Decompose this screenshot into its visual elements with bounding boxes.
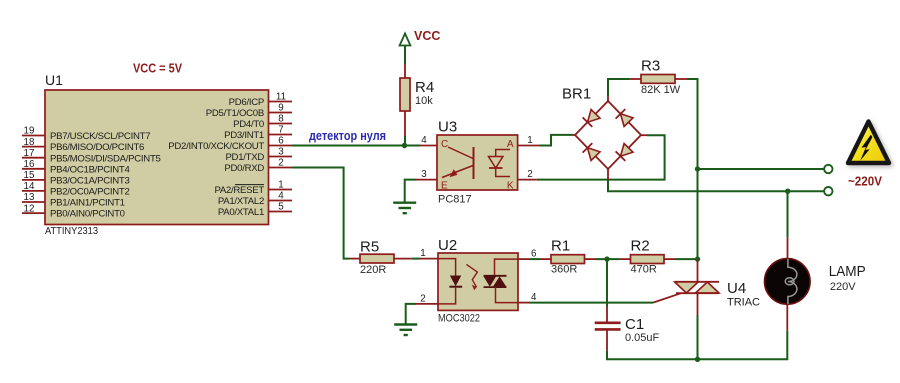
U3 internal photodiode [489,150,511,177]
U1 pin 17 PB5/MOSI/DI/SDA/PCINT5 [22,148,161,164]
svg-text:4: 4 [278,191,284,202]
svg-text:6: 6 [531,249,537,260]
svg-text:~220V: ~220V [848,174,882,189]
svg-text:PD2/INT0/XCK/CKOUT: PD2/INT0/XCK/CKOUT [168,141,264,152]
svg-text:220R: 220R [360,264,386,276]
U2 internal light arrow [466,264,477,290]
svg-text:4: 4 [531,292,537,303]
terminal 2 (~220V neutral) [824,187,832,195]
svg-text:K: K [507,181,514,192]
resistor R1 360R [540,238,596,276]
U2 pin 4 [518,292,537,303]
svg-text:360R: 360R [551,264,577,276]
U1 pin 2 PD0/RXD [224,158,292,174]
U1 pin 5 PA0/XTAL1 [218,202,292,218]
resistor R3 82K 1W [629,58,687,97]
svg-text:PA1/XTAL2: PA1/XTAL2 [218,196,264,207]
U1 pin 7 PD3/INT1 [224,125,292,141]
wire U2 pin6 to R1 [530,258,541,260]
svg-text:9: 9 [278,103,283,114]
U1 pin 13 PB1/AIN1/PCINT1 [22,192,125,208]
bridge diode D-bottom-left [588,148,601,161]
svg-text:17: 17 [24,148,35,159]
U1 pin 16 PB4/OC1B/PCINT4 [22,159,130,175]
wire U3 pin1 to BR1 left [540,135,573,146]
wire C1 to bottom rail [607,351,698,359]
resistor R4 10k [400,64,434,146]
svg-text:R5: R5 [360,239,379,256]
svg-text:5: 5 [278,202,284,213]
svg-text:19: 19 [24,126,35,137]
svg-text:13: 13 [24,192,35,203]
svg-text:R4: R4 [415,79,434,96]
svg-text:PD0/RXD: PD0/RXD [224,163,264,174]
junction node bottom rail [695,357,700,362]
hazard symbol (high voltage triangle) [848,122,889,164]
U2 pin 6 [518,249,537,260]
optocoupler U2 MOC3022 body [438,253,518,310]
U1 pin 9 PD5/T1/OC0B [206,103,292,119]
U1 pin 3 PD1/TXD [225,147,292,163]
IC U1 ATTINY2313 body [45,90,269,225]
ground symbol (U3 pin3) [393,203,416,214]
svg-text:PD1/TXD: PD1/TXD [225,152,264,163]
capacitor C1 0.05uF [595,307,660,351]
U2 internal LED [438,259,462,304]
wire U1 pin2 to R5 [292,168,349,259]
U1 pin 15 PB3/OC1A/PCINT3 [22,170,130,186]
svg-text:15: 15 [24,170,35,181]
wire BR1 bottom to terminal 2 [607,169,609,180]
svg-text:12: 12 [24,203,35,214]
svg-text:A: A [507,139,514,150]
svg-text:3: 3 [421,169,427,180]
svg-text:LAMP: LAMP [829,263,866,280]
U2 internal triac [484,259,519,303]
bridge diode D-top-left [588,110,601,123]
svg-text:U4: U4 [727,280,746,297]
svg-text:U2: U2 [438,237,457,254]
U1 pin 19 PB7/USCK/SCL/PCINT7 [22,126,150,142]
svg-text:PB7/USCK/SCL/PCINT7: PB7/USCK/SCL/PCINT7 [50,131,150,142]
svg-text:R2: R2 [631,238,650,255]
U1 pin 12 PB0/AIN0/PCINT0 [22,203,125,219]
U1 pin 6 PD2/INT0/XCK/CKOUT [168,136,292,152]
U3 pin 1 A [507,135,540,150]
svg-text:6: 6 [278,136,284,147]
svg-text:MOC3022: MOC3022 [438,313,480,325]
wire R1 to R2 [596,258,620,260]
svg-text:PB0/AIN0/PCINT0: PB0/AIN0/PCINT0 [50,209,125,220]
wire R3 to right rail [687,79,698,169]
svg-text:14: 14 [24,181,35,192]
svg-text:0.05uF: 0.05uF [625,332,660,344]
svg-text:2: 2 [420,293,425,304]
svg-text:BR1: BR1 [562,86,591,103]
svg-text:11: 11 [276,92,286,103]
svg-text:PD6/ICP: PD6/ICP [229,97,264,108]
svg-text:PA2/RESET: PA2/RESET [214,185,264,196]
U2 pin 1 [420,248,438,259]
svg-text:PC817: PC817 [438,194,472,206]
U2 pin 2 [416,293,438,304]
wire U3 pin2 to BR1 right [537,135,665,179]
svg-text:470R: 470R [631,264,657,276]
svg-text:PD5/T1/OC0B: PD5/T1/OC0B [206,108,264,119]
optocoupler U3 PC817 body [437,135,518,190]
wire U2 pin2 to ground [406,304,416,325]
svg-text:C1: C1 [625,316,644,333]
svg-text:PB3/OC1A/PCINT3: PB3/OC1A/PCINT3 [50,176,130,187]
bridge rectifier BR1 [575,101,641,169]
svg-text:U1: U1 [45,72,63,88]
svg-text:ATTINY2313: ATTINY2313 [45,225,98,237]
svg-text:82K 1W: 82K 1W [641,84,681,96]
svg-text:PB2/OC0A/PCINT2: PB2/OC0A/PCINT2 [50,187,130,198]
svg-text:16: 16 [24,159,35,170]
U1 pin 4 PA1/XTAL2 [218,191,292,207]
triac U4 [653,259,760,315]
wire U4 to bottom rail [697,315,699,359]
svg-text:R3: R3 [641,58,660,75]
svg-text:R1: R1 [551,238,570,255]
svg-text:10k: 10k [415,95,433,107]
svg-text:1: 1 [420,248,425,259]
svg-text:1: 1 [278,180,283,191]
svg-text:TRIAC: TRIAC [727,297,760,309]
wire R2 to rail [675,258,698,260]
U1 pin 14 PB2/OC0A/PCINT2 [22,181,130,197]
junction node R4/U3 [402,143,407,148]
svg-text:4: 4 [421,135,427,146]
svg-text:VCC = 5V: VCC = 5V [133,61,182,76]
U1 pin 11 PD6/ICP [229,92,292,108]
U3 pin 4 C [420,135,448,150]
svg-text:8: 8 [278,114,284,125]
svg-text:E: E [441,181,448,192]
svg-text:PB5/MOSI/DI/SDA/PCINT5: PB5/MOSI/DI/SDA/PCINT5 [50,153,161,164]
junction node R1/R2/C1 [604,256,609,261]
terminal 1 (~220V live) [824,165,832,173]
U3 pin 3 E [416,169,448,192]
svg-text:PA0/XTAL1: PA0/XTAL1 [218,207,264,218]
U3 internal phototransistor [442,147,474,179]
wire U3 pin3 to ground [405,180,416,203]
U1 pin 18 PB6/MISO/DO/PCINT6 [22,137,144,153]
svg-text:PB4/OC1B/PCINT4: PB4/OC1B/PCINT4 [50,164,130,175]
svg-text:PB6/MISO/DO/PCINT6: PB6/MISO/DO/PCINT6 [50,142,144,153]
svg-text:PD4/T0: PD4/T0 [233,119,264,130]
wire R5 to U2 pin1 [412,258,420,260]
svg-text:VCC: VCC [414,29,440,43]
svg-text:1: 1 [527,135,532,146]
lamp LAMP 220V [765,237,866,330]
wire junction to C1 [606,259,608,306]
wire U2 pin4 to U4 gate [530,302,654,304]
bridge diode D-top-right [621,114,634,127]
resistor R2 470R [620,238,676,276]
svg-text:C: C [441,139,448,150]
bridge diode D-bottom-right [621,144,634,157]
wire terminal2 branch down to lamp [787,191,789,237]
U3 pin 2 K [507,169,537,192]
svg-text:220V: 220V [830,281,856,293]
wire net детектор нуля (U1 pin6 to U3 pin4) [292,145,420,147]
wire to terminal 1 [698,168,825,170]
svg-text:2: 2 [278,158,283,169]
svg-text:18: 18 [24,137,35,148]
U1 pin 8 PD4/T0 [233,114,292,130]
svg-text:PD3/INT1: PD3/INT1 [224,130,264,141]
resistor R5 220R [349,239,412,277]
svg-text:детектор нуля: детектор нуля [309,128,386,143]
svg-text:3: 3 [278,147,284,158]
svg-text:PB1/AIN1/PCINT1: PB1/AIN1/PCINT1 [50,198,125,209]
svg-text:7: 7 [278,125,283,136]
wire BR1 top to R3 [607,96,609,101]
svg-text:U3: U3 [438,119,457,136]
junction node lamp branch [785,189,790,194]
power symbol VCC [400,29,441,64]
wire lamp to bottom rail [698,330,788,359]
svg-text:2: 2 [527,169,532,180]
wire right rail down to R2/U4 [697,169,699,259]
U1 pin 1 PA2/RESET [214,180,292,196]
junction node R2/U4 [695,256,700,261]
junction node rail/terminal1 [695,166,700,171]
ground symbol (U2 pin2) [394,325,417,336]
